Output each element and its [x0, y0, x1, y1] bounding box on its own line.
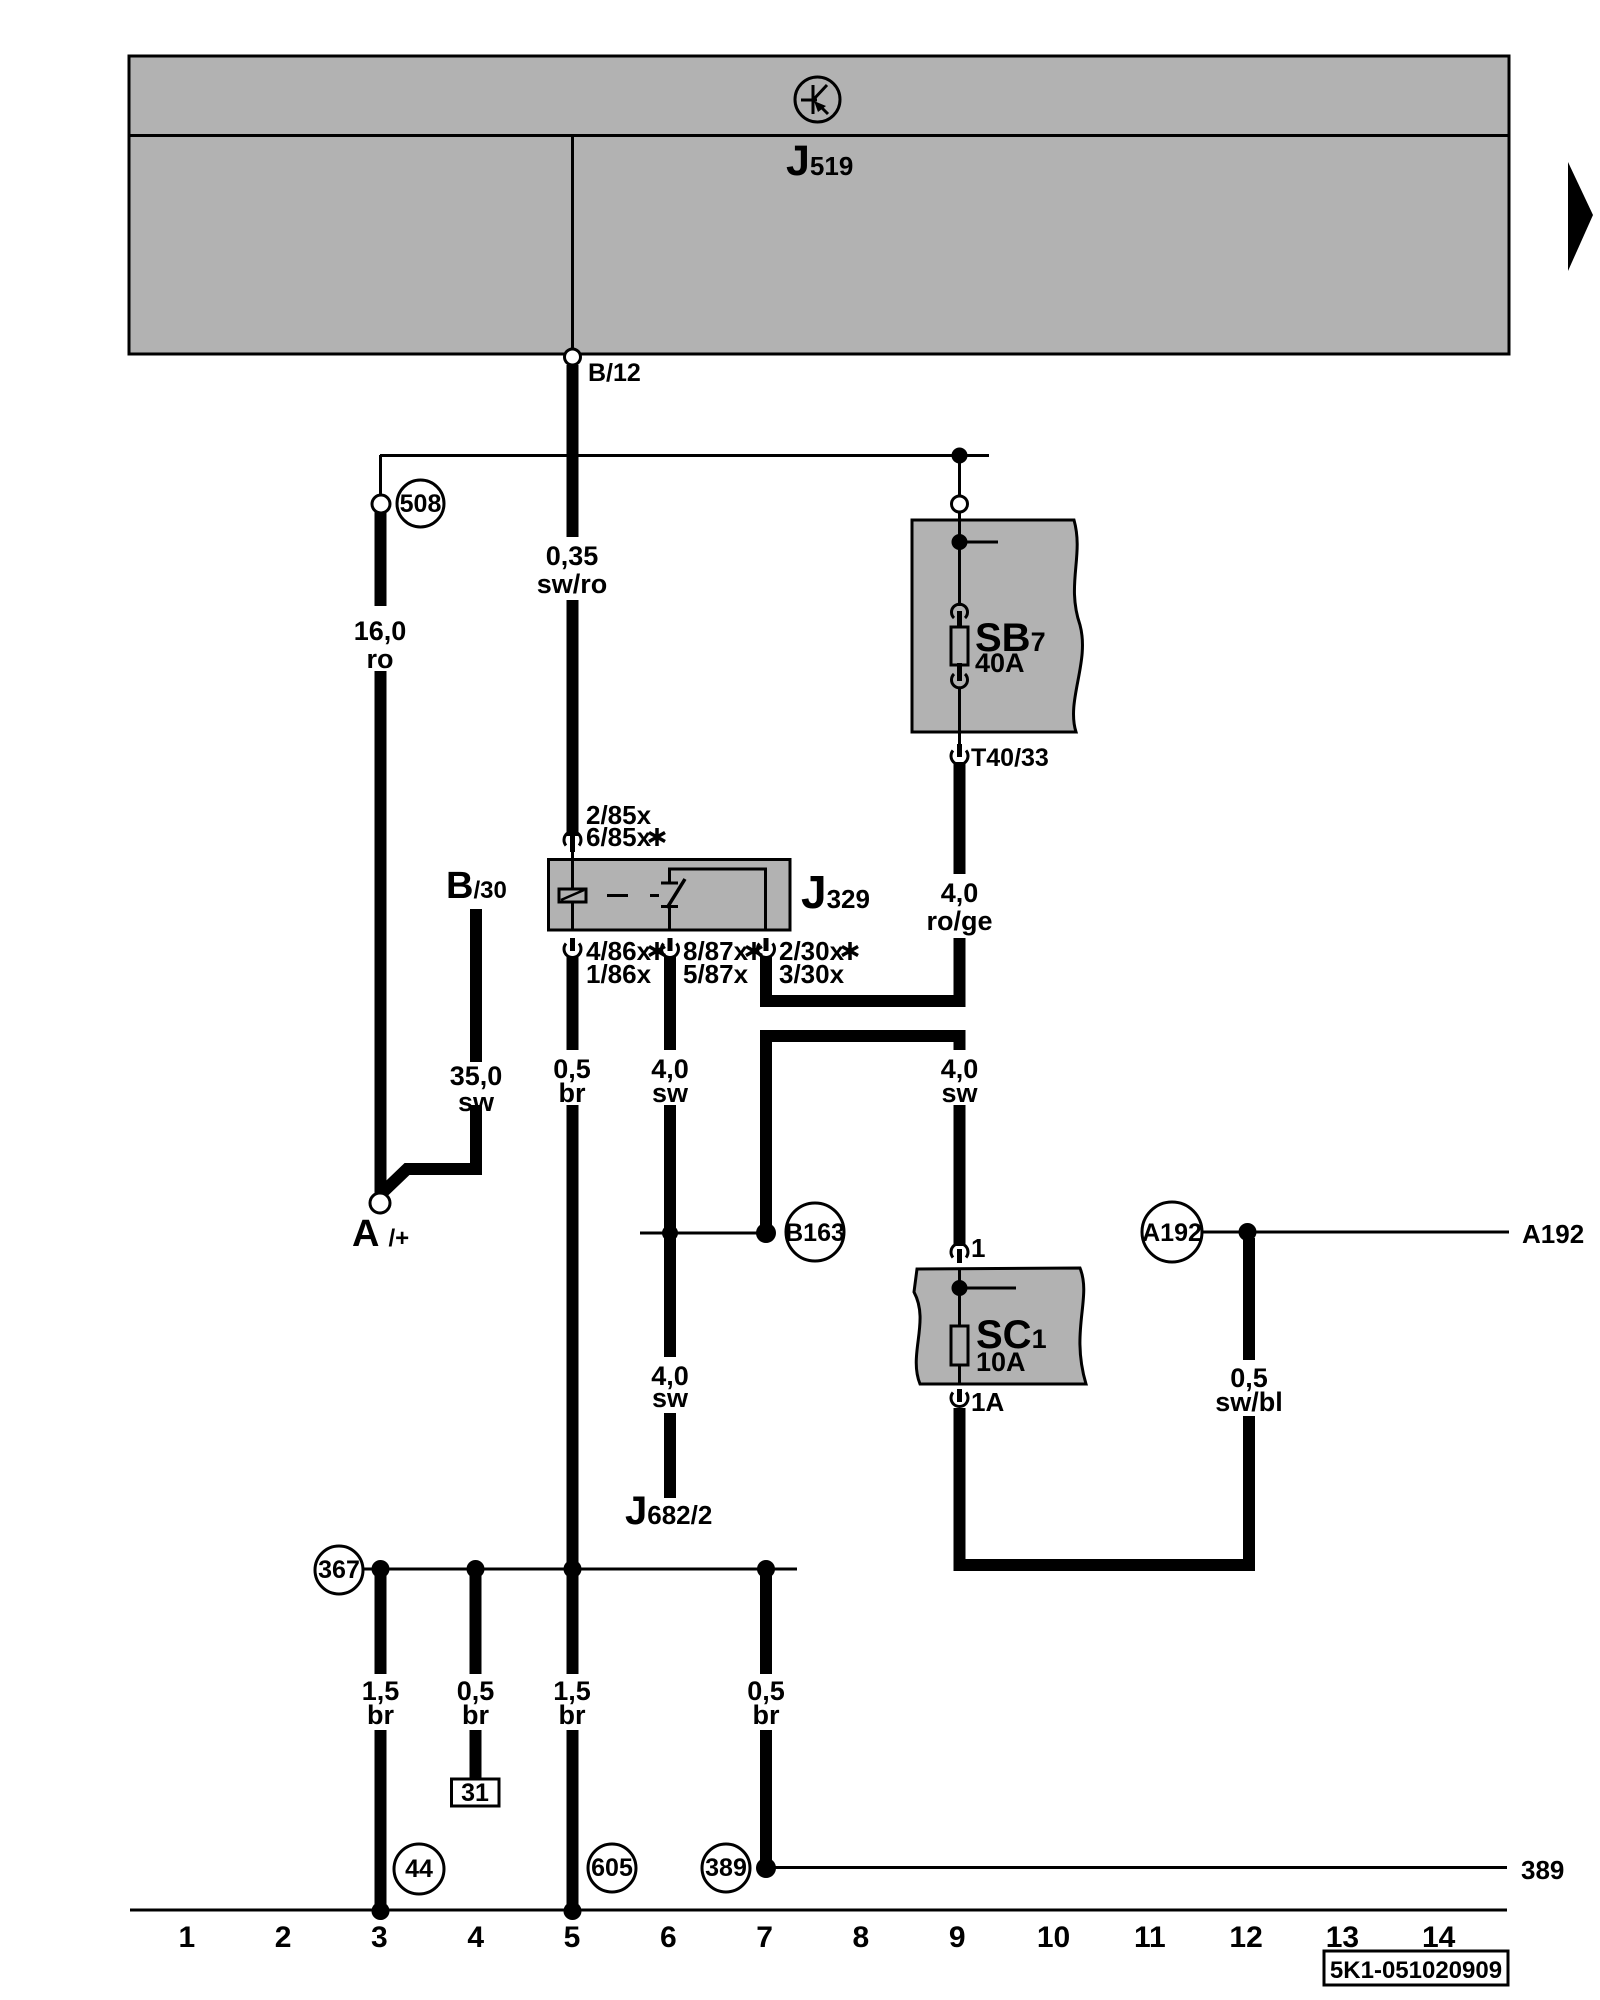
junction dot 389	[756, 1858, 776, 1878]
svg-text:br: br	[367, 1700, 394, 1730]
label circle 367	[315, 1546, 363, 1594]
SB7 pin T40/33 connector	[951, 744, 968, 764]
label circle 508	[397, 480, 444, 527]
svg-text:4,0: 4,0	[941, 878, 979, 908]
svg-text:1/86x: 1/86x	[586, 959, 652, 989]
svg-text:5/87x: 5/87x	[683, 959, 749, 989]
svg-text:3: 3	[371, 1921, 388, 1954]
wire 0,35 sw/ro lower	[567, 600, 579, 836]
label 16,0 ro	[354, 616, 407, 674]
svg-text:br: br	[559, 1700, 586, 1730]
SC1 pin 1 connector	[951, 1244, 968, 1263]
bottom rail	[130, 1909, 1507, 1912]
ground junction dot track5	[564, 1902, 582, 1920]
svg-text:13: 13	[1326, 1921, 1359, 1954]
svg-text:sw: sw	[652, 1383, 689, 1413]
wire 1,5 br track3 upper	[375, 1569, 387, 1674]
continuation arrow right	[1568, 162, 1593, 271]
wire 0,5 sw/bl upper	[1243, 1238, 1255, 1360]
label 4,0 sw	[651, 1054, 689, 1108]
label 0,5 br track7	[747, 1676, 785, 1730]
label circle 44	[394, 1844, 444, 1894]
label 0,5 br	[553, 1054, 591, 1108]
svg-text:ro/ge: ro/ge	[926, 906, 992, 936]
svg-text:14: 14	[1422, 1921, 1456, 1954]
svg-text:1A: 1A	[971, 1387, 1004, 1417]
label circle 605	[588, 1844, 636, 1892]
svg-text:508: 508	[400, 490, 442, 518]
pin label 2/30x 3/30x	[779, 936, 858, 989]
bus coupling symbol in J519	[795, 77, 840, 122]
label SB7 40A	[975, 616, 1046, 678]
svg-text:3/30x: 3/30x	[779, 959, 845, 989]
connector B/12 white circle	[565, 349, 581, 365]
svg-text:605: 605	[591, 1854, 633, 1882]
wire 4,0 sw lower	[664, 1413, 676, 1498]
svg-text:10: 10	[1037, 1921, 1070, 1954]
SB7 internal node	[952, 534, 999, 550]
wire inside J519 to pin B/12	[571, 136, 574, 350]
SC1 internal node	[952, 1280, 1017, 1296]
svg-text:sw/ro: sw/ro	[537, 569, 608, 599]
wire 35,0 sw upper	[470, 909, 482, 1062]
wire 16,0 ro lower	[375, 671, 387, 1193]
wire 0,5 br track7 upper	[760, 1569, 772, 1674]
svg-text:7: 7	[756, 1921, 773, 1954]
track numbers 1-14	[178, 1921, 1455, 1954]
svg-text:sw/bl: sw/bl	[1215, 1387, 1283, 1417]
SB7 internal line to output	[958, 689, 961, 746]
relay pin 2/85x connector	[564, 832, 581, 852]
wire 0,5 br track4 upper	[470, 1569, 482, 1674]
label 0,35 sw/ro	[537, 541, 608, 599]
wire 0,5 br track7 lower	[760, 1730, 772, 1868]
wire 4,0 ro/ge upper	[954, 762, 966, 874]
svg-text:367: 367	[318, 1556, 360, 1584]
svg-text:9: 9	[949, 1921, 966, 1954]
svg-text:br: br	[559, 1078, 586, 1108]
link down to SB7	[958, 456, 961, 496]
junction dot at B163	[756, 1223, 776, 1243]
junction dot on 4,0 sw wire	[662, 1225, 678, 1241]
svg-text:sw: sw	[652, 1078, 689, 1108]
relay pin 8/87x connector	[662, 938, 679, 957]
wire 1,5 br track3 lower	[375, 1730, 387, 1911]
svg-text:br: br	[462, 1700, 489, 1730]
svg-text:6: 6	[660, 1921, 677, 1954]
fuse element SB7	[951, 604, 968, 688]
label 1,5 br track5	[553, 1676, 591, 1730]
relay J329 box	[549, 860, 791, 931]
svg-text:4: 4	[467, 1921, 484, 1954]
SB7 internal feed line	[958, 520, 961, 606]
ground symbol 31	[452, 1779, 500, 1807]
junction dot at A192	[1239, 1223, 1257, 1241]
svg-text:A192: A192	[1522, 1219, 1584, 1249]
wire 0,5 br track4 lower	[470, 1730, 482, 1779]
coil feed line from pin 85	[571, 852, 574, 889]
svg-text:389: 389	[705, 1854, 747, 1882]
junction dot track4	[467, 1560, 485, 1578]
wire 4,0 sw from relay 87	[664, 956, 676, 1050]
svg-text:B163: B163	[785, 1219, 845, 1247]
label 35,0 sw	[450, 1061, 503, 1117]
SC1 internal feed line	[958, 1268, 961, 1326]
control unit J519 box	[129, 56, 1509, 354]
wire 0,5 br middle	[567, 1105, 579, 1674]
label circle A192	[1142, 1202, 1202, 1262]
terminal white circle 508	[372, 495, 390, 513]
svg-text:ro: ro	[367, 644, 394, 674]
junction dot track9	[952, 448, 968, 464]
fuse box SC1	[914, 1268, 1086, 1384]
link into SB7 box	[958, 512, 961, 521]
bridge wire to B163 and SC1	[766, 1036, 960, 1238]
switch output route to pin 30	[670, 869, 766, 930]
svg-text:389: 389	[1521, 1855, 1564, 1885]
svg-text:1: 1	[178, 1921, 195, 1954]
wire 16,0 ro upper	[375, 512, 387, 606]
svg-text:40A: 40A	[975, 648, 1025, 678]
SC1 internal line to output	[958, 1365, 961, 1384]
junction dot track5	[564, 1560, 582, 1578]
relay pin 2/30x connector	[758, 938, 775, 957]
label 4,0 sw second	[651, 1361, 689, 1413]
fuse box SB7	[912, 520, 1082, 732]
svg-text:12: 12	[1229, 1921, 1262, 1954]
svg-text:11: 11	[1134, 1921, 1166, 1954]
wire 4,0 sw middle	[664, 1105, 676, 1357]
wire 4,0 ro/ge elbow to relay 30	[766, 938, 960, 1001]
pin label 8/87x 5/87x	[683, 936, 762, 989]
fuse element SC1	[951, 1326, 968, 1365]
svg-text:6/85x: 6/85x	[586, 822, 652, 852]
relay pin 4/86x connector	[564, 938, 581, 957]
svg-text:sw: sw	[941, 1078, 978, 1108]
wire 4,0 sw to SC1 pin1	[954, 1105, 966, 1246]
wire 0,5 br from relay 86	[567, 956, 579, 1050]
wire 0,35 sw/ro upper	[567, 365, 579, 537]
node line B163	[640, 1232, 766, 1235]
svg-text:5K1-051020909: 5K1-051020909	[1330, 1957, 1502, 1984]
svg-text:1: 1	[971, 1233, 985, 1263]
label 4,0 sw at SC1 feed	[941, 1054, 979, 1108]
node line 389	[766, 1866, 1507, 1869]
coil to pin 86 line	[571, 902, 574, 930]
svg-text:T40/33: T40/33	[971, 744, 1049, 772]
junction dot track7	[757, 1560, 775, 1578]
dashed actuation line	[607, 894, 659, 897]
corner down to terminal 508	[379, 455, 382, 495]
wire 0,5 sw/bl elbow	[960, 1408, 1250, 1565]
svg-text:br: br	[753, 1700, 780, 1730]
svg-text:44: 44	[405, 1855, 433, 1883]
svg-text:2: 2	[275, 1921, 292, 1954]
label SC1 10A	[976, 1313, 1047, 1377]
label 1,5 br track3	[362, 1676, 400, 1730]
svg-text:B/12: B/12	[588, 359, 641, 387]
SC1 pin 1A connector	[951, 1389, 968, 1406]
svg-text:31: 31	[461, 1779, 489, 1807]
wire 35,0 sw elbow to A	[383, 1105, 476, 1192]
ground junction dot track3	[372, 1902, 390, 1920]
pin label 2/85x 6/85x	[586, 800, 665, 852]
label 4,0 ro/ge	[926, 878, 992, 936]
node line A192 left	[1203, 1231, 1239, 1234]
relay switch contact	[661, 879, 685, 930]
label circle B163	[785, 1203, 845, 1261]
node line 367	[363, 1568, 797, 1571]
wire 1,5 br lower track5	[567, 1730, 579, 1911]
svg-text:8: 8	[853, 1921, 870, 1954]
node line y455	[380, 454, 989, 457]
label 0,5 sw/bl	[1215, 1363, 1283, 1417]
junction dot track3	[372, 1560, 390, 1578]
svg-text:10A: 10A	[976, 1347, 1026, 1377]
pin label 4/86x 1/86x	[586, 936, 665, 989]
terminal white circle at SB7 feed	[952, 496, 968, 512]
svg-text:0,35: 0,35	[546, 541, 599, 571]
svg-text:A192: A192	[1142, 1219, 1202, 1247]
svg-text:16,0: 16,0	[354, 616, 407, 646]
label circle 389	[702, 1844, 750, 1892]
label 0,5 br track4	[457, 1676, 495, 1730]
node line A192 right	[1256, 1231, 1509, 1234]
part number box	[1324, 1951, 1508, 1985]
svg-text:5: 5	[564, 1921, 581, 1954]
terminal A/+ white circle	[370, 1193, 390, 1213]
relay coil	[559, 889, 586, 902]
